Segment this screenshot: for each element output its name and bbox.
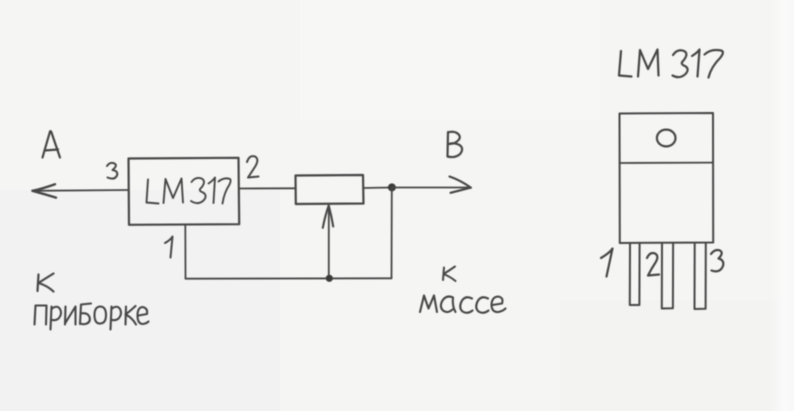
package leg 2 bbox=[662, 243, 673, 309]
pin 3 label bbox=[107, 163, 117, 179]
package mounting hole bbox=[657, 130, 676, 147]
potentiometer R1 bbox=[296, 175, 364, 204]
junction dot wiper bbox=[326, 275, 333, 282]
junction dot at node B bbox=[388, 183, 396, 191]
wire to A with arrowhead bbox=[33, 184, 129, 197]
wire to B with arrowhead bbox=[392, 177, 471, 193]
label к (right) bbox=[443, 267, 456, 282]
wire pin1 down bbox=[184, 225, 186, 279]
pin 1 label bbox=[165, 237, 173, 258]
regulator U1 LM317 box bbox=[129, 158, 240, 225]
package leg 3 bbox=[695, 243, 706, 309]
bottom wire bbox=[186, 277, 392, 279]
package title LM 317 bbox=[619, 50, 723, 78]
wire pin2 to potentiometer bbox=[239, 187, 295, 189]
wire potentiometer to node B junction bbox=[364, 187, 392, 190]
label к (left) bbox=[38, 274, 54, 292]
package body outline bbox=[620, 113, 714, 243]
label массе bbox=[420, 296, 506, 313]
label приборке bbox=[35, 304, 149, 330]
wire riser to junction bbox=[391, 188, 393, 279]
package pin 2 label bbox=[647, 253, 659, 275]
node B bbox=[448, 132, 463, 157]
node A bbox=[43, 131, 61, 157]
pin 2 label bbox=[247, 156, 259, 177]
package leg 1 bbox=[630, 243, 640, 305]
U1 value label LM 317 bbox=[147, 178, 231, 204]
package pin 1 label bbox=[601, 249, 613, 277]
package tab divider bbox=[620, 162, 714, 164]
package pin 3 label bbox=[711, 250, 723, 271]
potentiometer wiper arrow bbox=[323, 206, 333, 278]
